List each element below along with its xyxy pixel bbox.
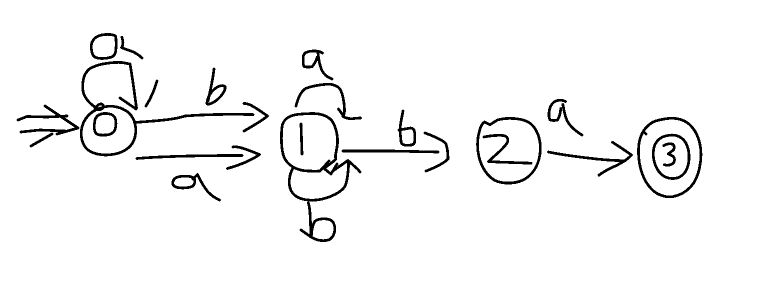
state 2 label "2" <box>484 135 531 163</box>
lower arrow arrowhead <box>228 147 260 169</box>
state 3 inner circle <box>653 135 689 178</box>
self-loop 1 arrowhead <box>339 109 344 116</box>
self-loop 0 arrowhead left arm <box>120 98 136 109</box>
lower loop arrowhead (up caret) <box>333 161 360 173</box>
start arrow slash <box>31 134 52 146</box>
label a (2 to 3) loop <box>549 100 566 120</box>
label b (0 to 1) bowl <box>207 86 225 105</box>
label b (1 to 2) bowl <box>399 128 415 145</box>
label b (down transition) bowl <box>311 219 335 241</box>
label a tail (state 0) <box>122 37 142 58</box>
self-loop 0 arrowhead right arm <box>146 81 157 106</box>
self-loop on state 1 <box>296 84 345 116</box>
label a above state 0 <box>91 34 116 58</box>
label a tail (lower arrow) <box>193 175 220 201</box>
state 1 blob (top, left, bottom) <box>281 114 333 172</box>
start arrow head <box>45 106 78 134</box>
state 0 label "0" <box>94 113 116 135</box>
start arrow shaft top <box>18 116 67 120</box>
transition 0 to 1 arrowhead <box>244 103 268 131</box>
state 2 circle <box>478 118 541 183</box>
transition 1 to 2 arrowhead <box>425 133 448 171</box>
state 3 outer circle <box>638 118 700 197</box>
label a above state 1 <box>303 51 322 67</box>
lower loop on state 1 <box>289 162 348 201</box>
down arrow barb <box>301 230 311 237</box>
state 1 corner v stroke <box>324 164 337 174</box>
label a (lower arrow) <box>173 176 195 188</box>
state 1 blob right side <box>324 123 338 169</box>
transition 1 to 2 (b) <box>343 151 438 152</box>
state 0 circle <box>81 106 136 155</box>
label b (1 to 2) stem <box>400 111 403 131</box>
self-loop 0 knot at state top <box>95 104 104 110</box>
pen dot on state 3 <box>645 133 646 134</box>
transition 2 to 3 arrowhead <box>599 142 632 175</box>
state 1 label "1" <box>301 124 302 154</box>
label b (0 to 1) stem <box>208 69 214 101</box>
label a tail (state 1) <box>318 53 332 79</box>
transition 0 to 1 top arrow (b) <box>136 114 254 122</box>
label a tail (2 to 3) <box>563 105 582 136</box>
self-loop on state 0 <box>83 62 137 108</box>
down arrow from state 1 <box>308 203 311 237</box>
transition 2 to 3 (a) <box>549 152 626 161</box>
state 3 label "3" <box>664 144 675 165</box>
self-loop 1 landing hook <box>343 117 361 119</box>
start arrow shaft bottom <box>21 130 65 132</box>
lower arrow between 0 and 1 (a) <box>137 156 242 159</box>
